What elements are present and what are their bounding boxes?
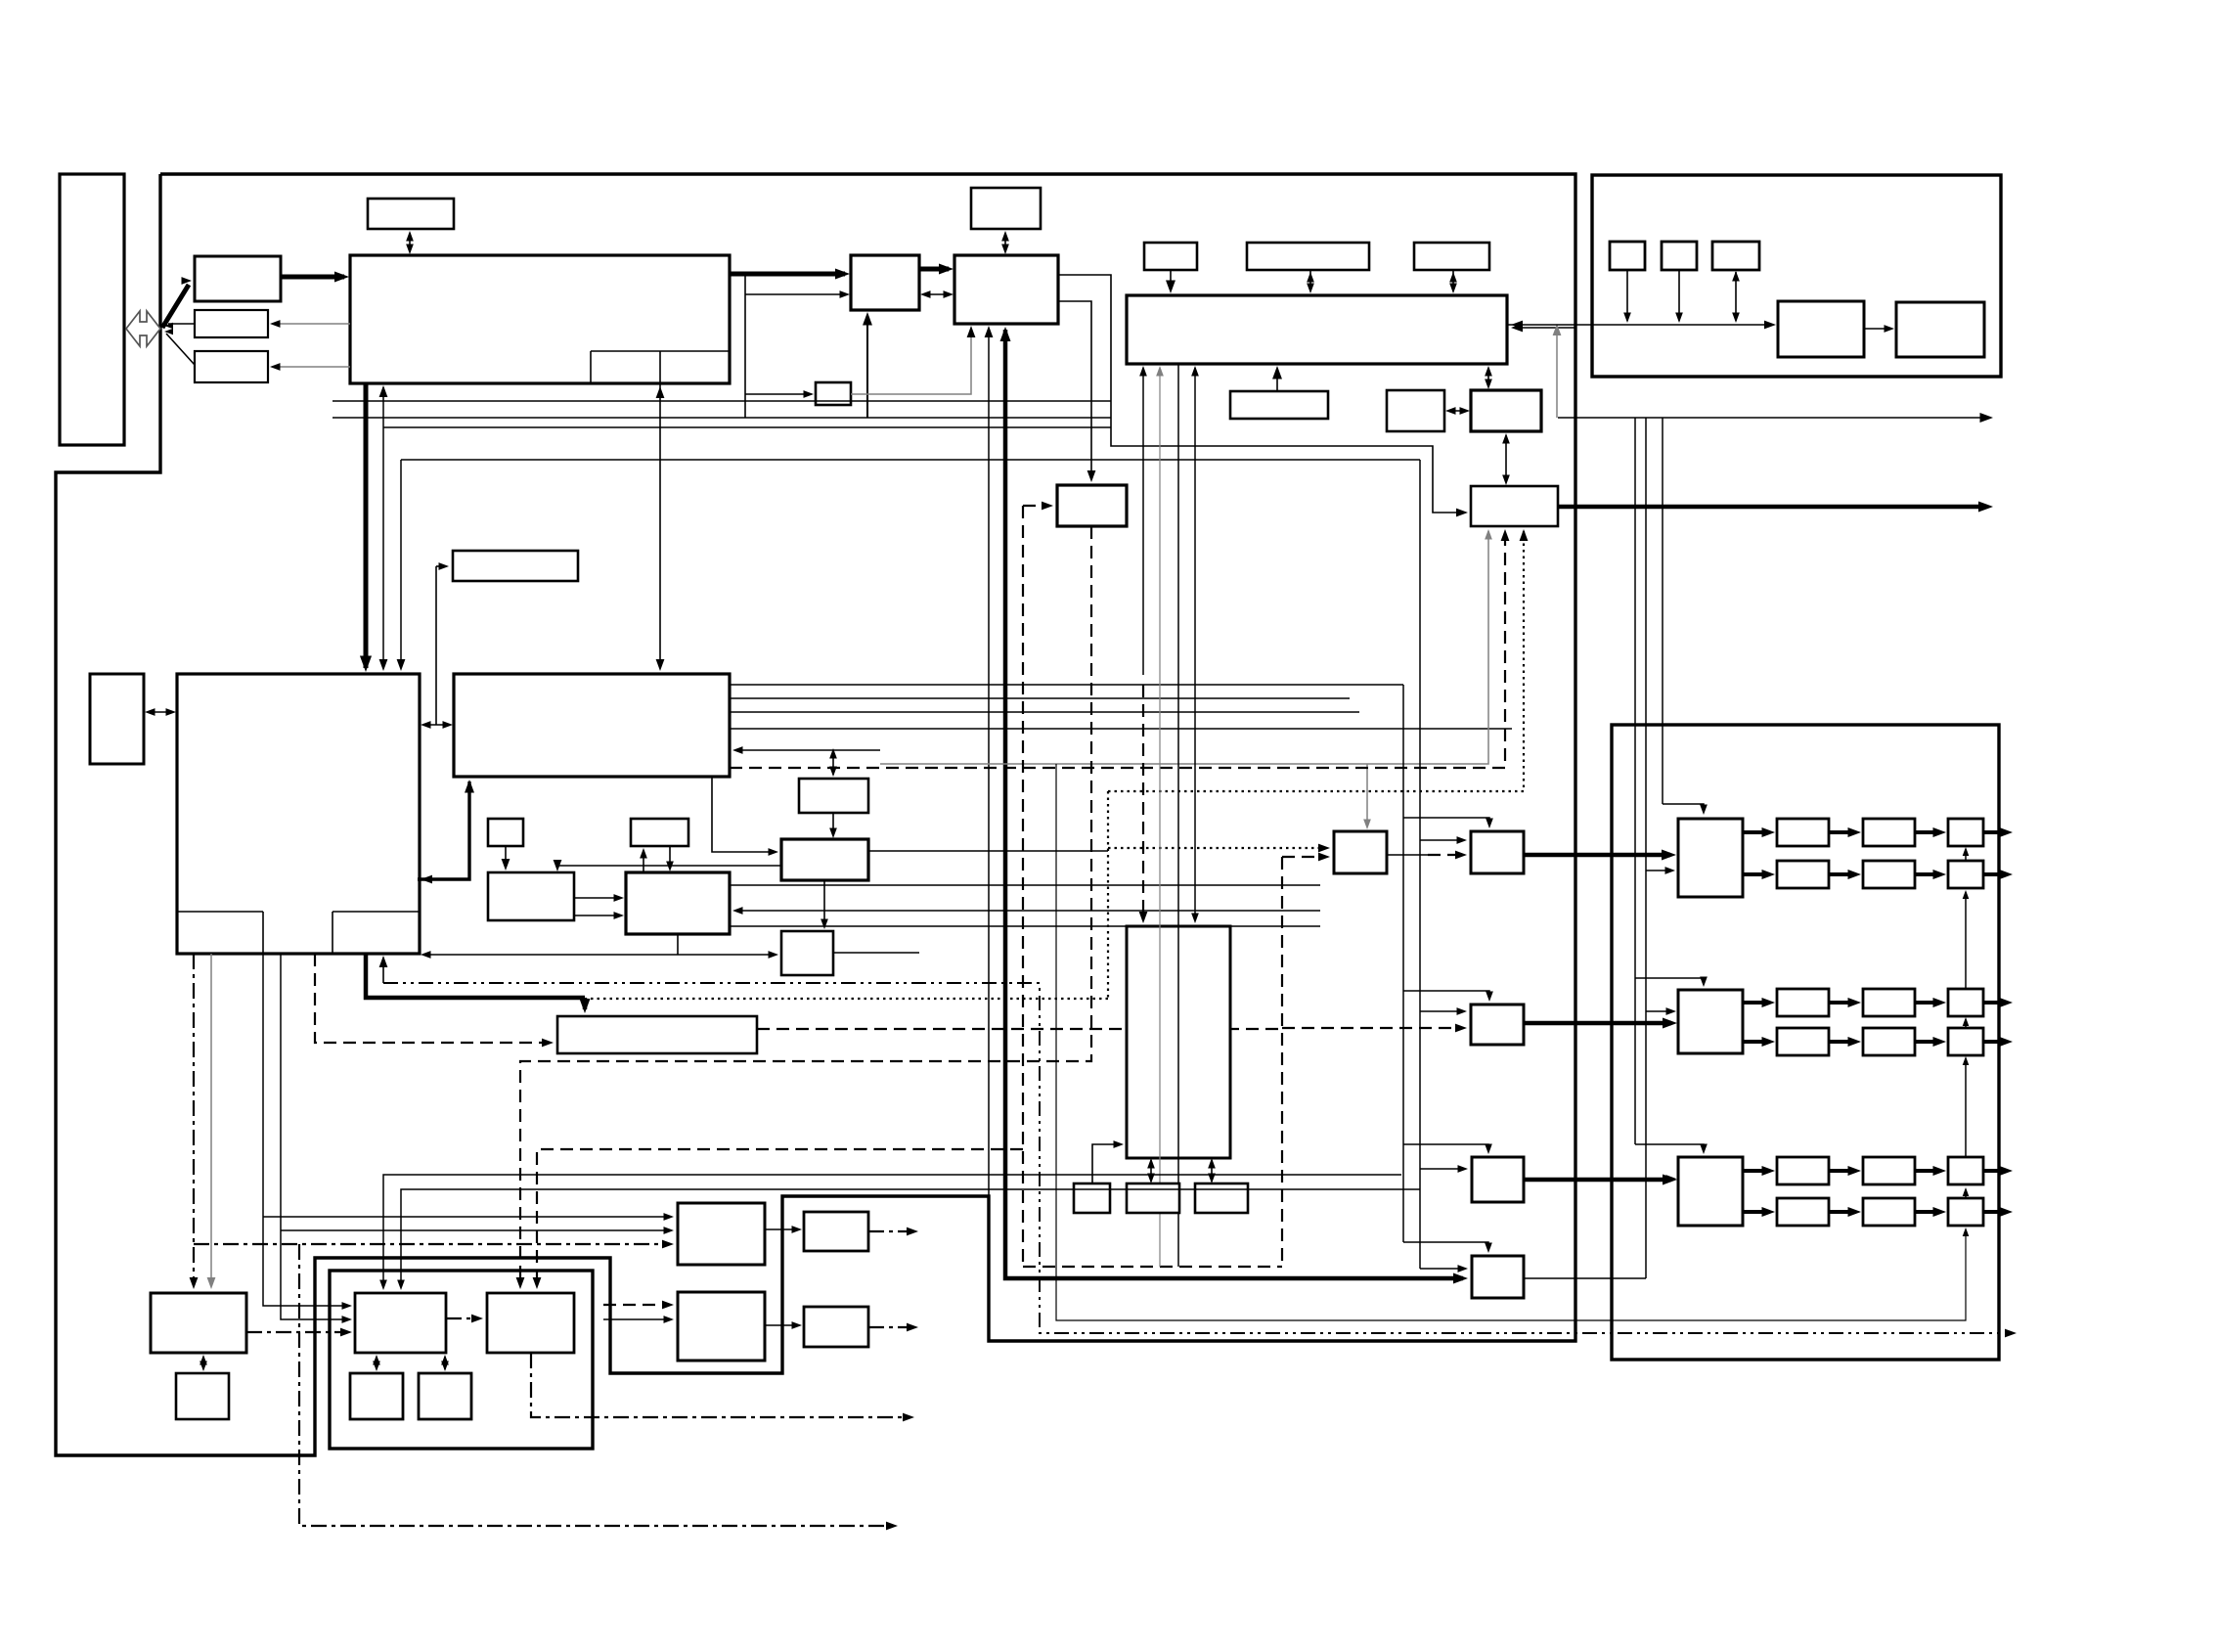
- a37: [379, 659, 388, 671]
- a95: [1458, 1165, 1469, 1173]
- X1-X2 double arrow: [202, 1357, 204, 1369]
- feed vert 1700: [1662, 418, 1663, 804]
- R double arrow up: [832, 750, 834, 775]
- a13: [863, 312, 872, 326]
- wire 287 net: [281, 954, 348, 1319]
- dac box M: [1471, 831, 1524, 873]
- a115: [441, 1355, 449, 1365]
- codec tall box: [1127, 926, 1230, 1158]
- Q down to S: [823, 880, 825, 926]
- thick g2r2 w2: [1829, 1040, 1856, 1044]
- G1 top feed: [1663, 804, 1704, 812]
- L-M dashed arrow: [1428, 854, 1463, 856]
- P2 right wire 1: [730, 884, 1320, 886]
- a24: [1449, 284, 1457, 294]
- pll box T4: [1778, 301, 1864, 357]
- a23: [1307, 272, 1314, 283]
- a96: [1485, 1243, 1492, 1254]
- mult box Q: [781, 839, 868, 880]
- a3: [334, 272, 349, 283]
- P1-P2 arrow 1: [574, 897, 621, 899]
- a11: [944, 290, 954, 298]
- bundle wire y437: [383, 426, 1111, 428]
- a104: [207, 1277, 216, 1289]
- fifo t3: [1195, 1183, 1248, 1213]
- a2: [406, 245, 414, 255]
- host interface tall box: [60, 174, 124, 445]
- g3r2a4: [2000, 1207, 2014, 1217]
- O feed top: [1403, 1144, 1488, 1151]
- g1r2a3: [1933, 870, 1947, 879]
- a47: [439, 562, 450, 570]
- a63: [821, 919, 828, 930]
- cpu core box: [177, 674, 420, 954]
- double arrow H-I: [1448, 410, 1467, 412]
- P feed top: [1403, 1242, 1488, 1250]
- alu box P2: [626, 872, 730, 934]
- a123: [907, 1323, 918, 1332]
- a50: [465, 780, 474, 793]
- reg box S1: [488, 819, 523, 846]
- a7: [1001, 245, 1009, 255]
- a55: [614, 894, 625, 902]
- double arrow clock2: [1004, 233, 1006, 252]
- gain box g1 r1c: [1948, 819, 1983, 846]
- gray feed to L and J: [880, 531, 1488, 764]
- dsp bundle y728: [730, 711, 1359, 713]
- P1-P2 arrow 2: [574, 915, 621, 916]
- wire widebox drop 1186: [1159, 368, 1161, 1267]
- G1 left feed: [1646, 870, 1671, 871]
- bundle wire y470: [401, 459, 1420, 461]
- port cell divider 2: [659, 351, 661, 383]
- gain box g3 r1c: [1948, 1157, 1983, 1184]
- c1-c4 double arrow: [444, 1357, 446, 1369]
- thick bus O out: [1524, 1178, 1671, 1183]
- a103: [190, 1277, 199, 1289]
- wire into sync box: [745, 393, 812, 395]
- dashed vert 1311: [1281, 857, 1283, 1267]
- a119: [903, 1413, 914, 1422]
- a49: [656, 386, 665, 398]
- shifter box R: [799, 779, 868, 813]
- dotted vert 1133: [1107, 791, 1109, 999]
- mux box L: [1334, 831, 1387, 873]
- S2-P2 up: [643, 850, 644, 872]
- wire widebox to tallbox: [1194, 368, 1196, 920]
- a21: [1166, 281, 1176, 294]
- thick g3r2 w3: [1915, 1210, 1941, 1214]
- a92: [1486, 992, 1493, 1003]
- a81: [1191, 914, 1199, 924]
- a107: [342, 1302, 353, 1310]
- wire memctl to timer J: [1058, 275, 1465, 513]
- g2r2a2: [1848, 1037, 1862, 1047]
- c2 bottom dashdot: [531, 1353, 909, 1417]
- double arrow I-J: [1505, 435, 1507, 482]
- a61: [829, 828, 837, 839]
- a75: [1318, 853, 1330, 862]
- a91: [1457, 836, 1468, 844]
- receive buffer box: [195, 256, 281, 301]
- b5: [1963, 1187, 1970, 1196]
- a25: [1449, 272, 1457, 283]
- a60: [829, 767, 837, 778]
- dsp bundle y714: [730, 697, 1350, 699]
- feed vert 1683: [1645, 418, 1647, 1278]
- wire vert 410 drop to CPU top: [400, 460, 402, 668]
- dashed to c2 via 549: [537, 1149, 1023, 1285]
- g3r2a3: [1933, 1207, 1947, 1217]
- N feed left: [1420, 1010, 1463, 1012]
- small box c3: [350, 1373, 403, 1419]
- arrow uart up: [1276, 369, 1278, 391]
- a76: [1455, 1024, 1467, 1033]
- gain box g2 r2c: [1948, 1028, 1983, 1055]
- thick bus J out right: [1558, 505, 1985, 510]
- thick g3r2 w2: [1829, 1210, 1856, 1214]
- register file box E: [1247, 243, 1369, 270]
- a57: [640, 848, 647, 859]
- thick g3r2 w1: [1743, 1210, 1770, 1214]
- cpu tab right top: [333, 911, 420, 913]
- dashed K feed: [1023, 505, 1049, 507]
- thick g3r1 out: [1983, 1169, 2007, 1173]
- b4: [1963, 1056, 1970, 1065]
- a18: [1453, 1273, 1468, 1284]
- a78: [1139, 912, 1148, 923]
- a131: [1732, 313, 1740, 324]
- filter box g1 r2a: [1777, 861, 1829, 888]
- P2 bottom stub: [677, 934, 679, 955]
- dashed J long feed: [730, 531, 1505, 768]
- gray wire bus control to control reg: [274, 366, 350, 368]
- wire control reg diagonal: [166, 334, 195, 365]
- timer box F: [1414, 243, 1489, 270]
- a127: [1764, 321, 1776, 330]
- a20: [1456, 509, 1468, 517]
- a94: [1485, 1144, 1492, 1155]
- a134: [1700, 977, 1708, 988]
- g1r2a2: [1848, 870, 1862, 879]
- filter box g2 r1b: [1863, 989, 1915, 1016]
- a82: [1139, 366, 1147, 377]
- a80: [1191, 366, 1199, 377]
- dsp bundle y700: [730, 684, 1403, 686]
- a79: [1501, 529, 1510, 541]
- gpio box P: [1472, 1256, 1524, 1298]
- jtag box X2: [176, 1373, 229, 1419]
- chain s3-s2: [1965, 892, 1967, 989]
- a74: [533, 1277, 542, 1289]
- a136: [1665, 867, 1676, 874]
- a138: [1666, 1175, 1677, 1183]
- output stage container: [1612, 725, 1999, 1360]
- a84: [1114, 1140, 1125, 1148]
- arrowhead diag junction: [164, 329, 173, 335]
- a109: [342, 1316, 353, 1323]
- a137: [1666, 1007, 1677, 1015]
- codec subsystem container: [330, 1271, 593, 1449]
- G3 top feed: [1635, 1144, 1704, 1151]
- V2 wire in: [603, 1318, 670, 1320]
- memory controller box: [954, 255, 1058, 324]
- bundle wire y410: [333, 400, 1111, 402]
- small sync box: [816, 382, 851, 405]
- a87: [1208, 1158, 1216, 1169]
- filter box g1 r2b: [1863, 861, 1915, 888]
- thick g1r1 w1: [1743, 830, 1770, 834]
- filter box g2 r2b: [1863, 1028, 1915, 1055]
- a124: [662, 1301, 674, 1310]
- dsp bundle y767 arrowed: [735, 749, 880, 751]
- out box W2: [804, 1307, 868, 1347]
- double arrow F: [1452, 270, 1454, 291]
- thick mailbox drop: [583, 998, 588, 1009]
- a36: [1980, 413, 1994, 423]
- arrow up into dma bottom: [866, 315, 868, 418]
- a33: [1978, 502, 1993, 513]
- a67: [2005, 1329, 2017, 1338]
- g3r1a2: [1848, 1166, 1862, 1176]
- a65: [769, 951, 779, 959]
- dashed bottom 1295: [1023, 1266, 1282, 1268]
- dotted bus from mailbox: [591, 998, 1108, 1000]
- codec box c2: [487, 1293, 574, 1353]
- a114: [373, 1362, 380, 1372]
- a69: [1363, 820, 1371, 830]
- gain box g3 r2c: [1948, 1198, 1983, 1226]
- a90: [1486, 819, 1493, 829]
- right thin arrow y427: [1558, 417, 1985, 419]
- thick g1r1 w3: [1915, 830, 1941, 834]
- a88: [1208, 1174, 1216, 1184]
- thick bus dma to memctl: [919, 267, 949, 272]
- chain s5-s4: [1965, 1058, 1967, 1157]
- a73: [1042, 502, 1053, 511]
- thick g3r1 w1: [1743, 1169, 1770, 1173]
- fifo t1: [1074, 1183, 1110, 1213]
- a129: [1675, 313, 1683, 324]
- a125: [664, 1316, 675, 1323]
- g2r1a2: [1848, 998, 1862, 1007]
- a100: [1663, 1175, 1677, 1185]
- wire into dma left: [745, 293, 847, 295]
- P2 right wire arrow in: [735, 910, 1320, 912]
- thick g1r1 w2: [1829, 830, 1856, 834]
- a10: [920, 290, 931, 298]
- a27: [1445, 407, 1456, 415]
- a77: [516, 1277, 525, 1289]
- vert 1452: [1419, 460, 1421, 1269]
- port cell top line: [591, 350, 730, 352]
- thick g3r1 w3: [1915, 1169, 1941, 1173]
- a128: [1623, 313, 1631, 324]
- g2r1a1: [1762, 998, 1776, 1007]
- thick g3r1 w2: [1829, 1169, 1856, 1173]
- O feed left: [1420, 1168, 1464, 1170]
- chain s6-s5: [1965, 1189, 1967, 1198]
- thick bus under memctl: [1005, 330, 1463, 1278]
- a37b: [379, 385, 388, 397]
- monitor box V1: [678, 1203, 765, 1265]
- T3 stub: [1735, 272, 1737, 321]
- a53: [502, 859, 510, 871]
- thick bus N out: [1524, 1021, 1671, 1026]
- b6: [1963, 1228, 1970, 1236]
- a42: [360, 656, 372, 673]
- can box J: [1471, 486, 1558, 526]
- a43: [580, 999, 591, 1013]
- status register box: [195, 310, 268, 337]
- a132: [1885, 325, 1895, 333]
- W1 dashdot out: [868, 1230, 912, 1232]
- thick bus buscontrol to cpu: [364, 383, 369, 668]
- bundle wire y427: [333, 417, 1111, 419]
- dashdot branch down: [299, 1244, 892, 1526]
- a86: [1147, 1174, 1155, 1184]
- a112: [471, 1315, 483, 1323]
- wire widebox drop 1169: [1142, 368, 1144, 675]
- a126: [1511, 321, 1523, 330]
- clock box top: [368, 199, 454, 229]
- fifo t2: [1127, 1183, 1179, 1213]
- thick bus receive buffer to bus control: [281, 275, 344, 280]
- P2 right wire 2: [730, 925, 1320, 927]
- clock box 2: [971, 188, 1041, 229]
- wire port to dsp top: [659, 383, 661, 668]
- thick diagonal bus to receive buffer: [162, 285, 189, 328]
- thick g2r1 w1: [1743, 1001, 1770, 1005]
- double arrow cpu-dsp: [423, 724, 450, 726]
- net PL1: [383, 1175, 1401, 1287]
- double arrow cache-cpu: [148, 711, 173, 713]
- thick bus bus-control to dma: [730, 272, 845, 277]
- a44: [379, 956, 388, 967]
- S1 to P1 arrow: [505, 846, 507, 868]
- a85: [1147, 1158, 1155, 1169]
- b3: [1963, 1017, 1970, 1026]
- wire bootrom left down: [435, 566, 437, 725]
- uart box G: [1230, 391, 1328, 419]
- g1r2a4: [2000, 870, 2014, 879]
- g3r2a2: [1848, 1207, 1862, 1217]
- irq box D: [1144, 243, 1197, 270]
- V1-W1 arrow: [765, 1228, 798, 1230]
- reg box S2: [631, 819, 688, 846]
- xtal box T3: [1712, 242, 1759, 270]
- a56: [614, 912, 625, 919]
- g3r1a1: [1762, 1166, 1776, 1176]
- wire status reg to junction: [168, 323, 195, 325]
- a133: [1700, 805, 1708, 816]
- cpu tab left top: [177, 911, 263, 913]
- pwm box O: [1472, 1157, 1524, 1202]
- t3 double arrow: [1211, 1160, 1213, 1182]
- a130: [1732, 271, 1740, 282]
- g1r1a1: [1762, 827, 1776, 837]
- mailbox long box: [557, 1016, 757, 1053]
- a101: [200, 1355, 207, 1365]
- a66: [732, 907, 743, 915]
- long wire cpu to S: [423, 954, 776, 956]
- thick bus M out: [1524, 853, 1670, 858]
- thick g2r1 out: [1983, 1001, 2007, 1005]
- wire widebox drop 1205: [1177, 364, 1179, 1267]
- osc box T1: [1610, 242, 1645, 270]
- a1: [406, 231, 414, 242]
- dashed branch L: [1282, 856, 1326, 858]
- a38: [397, 659, 406, 671]
- g1r2a1: [1762, 870, 1776, 879]
- a117: [379, 1280, 387, 1291]
- W2 dashdot out: [868, 1326, 912, 1328]
- a110: [664, 1227, 675, 1234]
- boot rom long box: [453, 551, 578, 581]
- a62: [769, 848, 779, 856]
- a6: [1001, 231, 1009, 242]
- dashed to tallbox top: [1142, 685, 1144, 920]
- S2-P2 down: [669, 846, 671, 869]
- a29: [1485, 366, 1492, 377]
- a59: [829, 748, 837, 759]
- a105: [662, 1240, 674, 1249]
- a4: [270, 320, 281, 328]
- G2 top feed: [1635, 978, 1704, 984]
- a54: [554, 860, 562, 871]
- dotted to J: [1108, 531, 1524, 791]
- wire bootrom stub: [436, 565, 445, 567]
- wire Q to P1 top: [557, 866, 781, 869]
- mac box P1: [488, 872, 574, 920]
- a16: [985, 326, 994, 337]
- a106: [886, 1522, 898, 1531]
- chain feed line: [1056, 764, 1966, 1320]
- small box c4: [419, 1373, 471, 1419]
- thick g1r2 w3: [1915, 872, 1941, 876]
- a111: [340, 1328, 352, 1337]
- a35: [1553, 324, 1562, 335]
- vertical stub right of bus control: [744, 274, 746, 418]
- dashed vertical 1046: [1022, 506, 1024, 1267]
- dma controller box: [851, 255, 919, 310]
- codec box c1: [355, 1293, 446, 1353]
- a28: [1460, 407, 1471, 415]
- filter box g1 r1b: [1863, 819, 1915, 846]
- dd arrow up into cpu bottom: [382, 958, 384, 983]
- osc box T2: [1662, 242, 1697, 270]
- wire 269 net: [263, 954, 348, 1306]
- filter box g2 r1a: [1777, 989, 1829, 1016]
- gain box g2 r1c: [1948, 989, 1983, 1016]
- a118: [397, 1280, 405, 1291]
- gray vert right of peripheral: [1556, 327, 1558, 418]
- dotted branch to L: [1108, 847, 1326, 849]
- filter box g1 r1a: [1777, 819, 1829, 846]
- a40: [145, 708, 155, 716]
- a52: [732, 746, 743, 754]
- g2r1a3: [1933, 998, 1947, 1007]
- g1r1a4: [2000, 827, 2014, 837]
- a5: [270, 363, 281, 371]
- double arrow peripheral-I: [1487, 368, 1489, 386]
- cpu tab left right side: [262, 912, 264, 954]
- thick g1r2 w2: [1829, 872, 1856, 876]
- M feed left: [1420, 839, 1463, 841]
- filter box g3 r2a: [1777, 1198, 1829, 1226]
- t2 double arrow: [1150, 1160, 1152, 1182]
- T4-T5 arrow: [1864, 328, 1890, 330]
